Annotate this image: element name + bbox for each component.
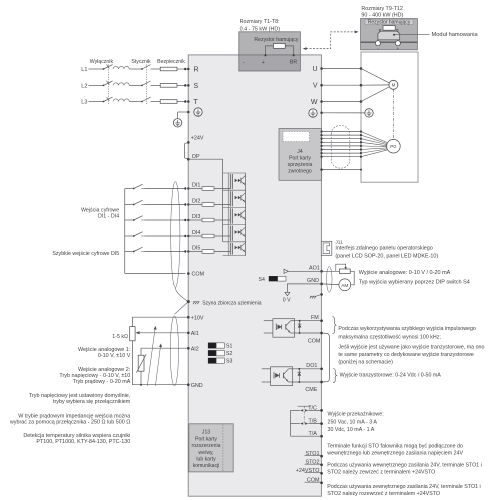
contactor contact L2 [141, 85, 143, 87]
digital input DI5 terminal [184, 250, 186, 252]
DI5 input resistor [188, 251, 202, 253]
terminal COM output [320, 332, 323, 335]
terminal STO1 [305, 455, 322, 457]
contactor contact L3 [141, 101, 143, 103]
svg-text:+: + [262, 60, 265, 66]
module base line [361, 41, 418, 43]
svg-text:1-5 kΩ: 1-5 kΩ [112, 334, 128, 340]
FM optocoupler [273, 319, 295, 338]
svg-text:PT100, PT1000, KTY-84-130, PTC: PT100, PT1000, KTY-84-130, PTC-130 [36, 439, 130, 445]
svg-text:T: T [194, 99, 199, 106]
svg-text:W: W [311, 99, 318, 106]
breaker thermal coil L3 [113, 99, 129, 102]
svg-text:wybrać za pomocą przełącznika: wybrać za pomocą przełącznika - 250 Ω lu… [9, 420, 130, 426]
svg-text:COM: COM [192, 272, 205, 278]
digital input DI1 terminal [184, 187, 186, 189]
feedback card port J4 box [279, 129, 321, 181]
wire W junction to motor [361, 87, 390, 102]
wire V to motor [320, 84, 323, 87]
wire switch to DI2 terminal [144, 204, 185, 206]
svg-text:PG: PG [390, 144, 397, 149]
terminal COM [305, 481, 322, 483]
FM output wire [295, 320, 322, 322]
PG signal wire 4 [320, 141, 322, 143]
svg-text:L3: L3 [81, 99, 87, 105]
module terminal + [397, 39, 399, 42]
svg-text:Interfejs zdalnego panelu oper: Interfejs zdalnego panelu operatorskiego [335, 245, 432, 251]
svg-text:sprzężenia: sprzężenia [288, 162, 313, 168]
terminal S dots [184, 84, 187, 87]
wire switch to DI5 terminal [144, 251, 185, 253]
braking module unit [379, 29, 381, 31]
J13 dashed divider [222, 425, 224, 472]
wire U junction to motor [361, 69, 390, 84]
svg-text:Stycznik: Stycznik [131, 59, 151, 65]
optocoupler DI1 LED arrows [235, 179, 238, 182]
optocoupler DI3 isolation bars [229, 208, 231, 223]
wire GND to AM meter [322, 283, 339, 286]
svg-text:AI2: AI2 [191, 346, 199, 352]
motor M circle [389, 80, 398, 89]
J11 remote panel connector [321, 241, 332, 255]
dashed arrow between braking boxes [306, 32, 355, 49]
svg-text:-: - [243, 60, 245, 66]
terminal AI2 [187, 347, 190, 350]
optocoupler DI5 isolation bars [229, 243, 231, 255]
external link COM to CME [322, 333, 330, 382]
DI cable shield ellipse [171, 182, 180, 288]
COM output wire [295, 332, 322, 334]
svg-text:GND: GND [191, 383, 203, 389]
motor enclosure box [361, 52, 418, 182]
terminal +24VSTO [305, 472, 322, 474]
PG signal wire 1 [320, 130, 322, 132]
terminal STO2 [305, 463, 322, 465]
svg-text:Rozmiary T9-T12: Rozmiary T9-T12 [361, 6, 403, 12]
terminal OP [187, 158, 190, 161]
DI1 external switch [125, 188, 134, 190]
GND internal wire to 0V [287, 284, 321, 292]
twisted pair arrow 1 [147, 328, 155, 386]
svg-text:rozszerzenia: rozszerzenia [192, 443, 221, 449]
CME output wire [293, 381, 322, 383]
terminal GND analog [187, 383, 190, 386]
svg-text:Podczas wykorzystywania szybki: Podczas wykorzystywania szybkiego wyjści… [338, 326, 476, 332]
svg-text:wewnętrznego lub zewnętrznego: wewnętrznego lub zewnętrznego zasilania … [327, 451, 463, 457]
fuse L2 [160, 84, 177, 88]
svg-text:AM: AM [341, 283, 348, 288]
FM COM brace [332, 317, 336, 334]
svg-text:Rezystor hamujący: Rezystor hamujący [368, 20, 411, 26]
svg-text:Port karty: Port karty [289, 155, 311, 161]
optocoupler DI4 transistor [240, 229, 242, 234]
svg-text:+24VSTO: +24VSTO [296, 468, 320, 474]
svg-text:S1: S1 [226, 344, 232, 350]
wire switch to DI3 terminal [144, 219, 185, 221]
wire contactor to fuse L2 [151, 84, 161, 86]
svg-text:DI4: DI4 [192, 230, 200, 236]
wire breaker to contactor L3 [129, 101, 142, 103]
optocoupler DI1 separator [223, 172, 246, 174]
PG shield wire [320, 168, 323, 171]
DI4 input resistor [188, 235, 202, 237]
braking resistor box T1-T8 [239, 32, 301, 71]
svg-text:COM: COM [307, 478, 320, 484]
svg-text:Szyna zbiorcza uziemienia: Szyna zbiorcza uziemienia [202, 300, 261, 306]
svg-text:+24V: +24V [191, 136, 204, 142]
terminal AI1 and wiper wire [187, 332, 190, 335]
wire breaker to contactor L1 [129, 68, 142, 70]
svg-text:Wyjście analogowe: 0-10 V / 0-: Wyjście analogowe: 0-10 V / 0-20 mA [359, 270, 451, 276]
svg-text:Wyłącznik: Wyłącznik [90, 59, 114, 65]
module terminal - [377, 39, 379, 42]
svg-text:T/C: T/C [308, 406, 317, 412]
svg-text:CME: CME [305, 387, 317, 393]
optocoupler DI1 isolation bars [229, 174, 231, 189]
wire contactor to fuse L3 [151, 101, 161, 103]
wire fuse to terminal R [177, 68, 185, 70]
terminal COM [187, 272, 190, 275]
breaker thermal coil L1 [113, 66, 129, 69]
svg-text:te same parametry co dedykowan: te same parametry co dedykowane wyjście … [338, 352, 473, 358]
svg-text:FM: FM [311, 315, 319, 321]
PG cable shield dashed capsule [331, 125, 350, 168]
svg-text:M: M [392, 83, 396, 88]
svg-text:T/B: T/B [309, 419, 318, 425]
svg-text:L2: L2 [81, 83, 87, 89]
digital input DI3 terminal [184, 219, 186, 221]
optocoupler DI3 transistor [240, 212, 242, 217]
svg-text:Jeśli wyjście jest używane jak: Jeśli wyjście jest używane jako wyjście … [338, 345, 484, 351]
wire switch to DI4 terminal [144, 235, 185, 237]
breaker contact L2 [103, 85, 105, 87]
wire L3 to breaker [89, 101, 104, 103]
J4 connector dashed white rect [283, 132, 310, 142]
wire W to motor [320, 100, 323, 103]
svg-text:0-10 V, ±10 V: 0-10 V, ±10 V [98, 353, 131, 359]
svg-text:250 Vac, 10 mA - 3 A: 250 Vac, 10 mA - 3 A [328, 419, 378, 425]
terminal T dots [184, 100, 187, 103]
PE terminal near AO with chassis symbol [320, 293, 323, 296]
DI4 external switch [125, 235, 134, 237]
svg-text:Wyjście przekaźnikowe:: Wyjście przekaźnikowe: [328, 412, 384, 418]
optocoupler DI4 LED arrows [235, 230, 238, 233]
switch common bus [124, 189, 126, 274]
terminal +10V [187, 316, 190, 319]
svg-text:DI3: DI3 [192, 214, 200, 220]
svg-text:+: + [397, 46, 400, 51]
resistor element T9-T12 [383, 26, 395, 31]
input ground electrode symbol [173, 119, 181, 127]
drive PE terminal symbol input side [194, 108, 202, 116]
DI1 input resistor [188, 188, 202, 190]
optocoupler DI3 separator [223, 206, 246, 208]
wire bus to COM [125, 273, 186, 275]
svg-text:Tryb prądowy - 0-20 mA: Tryb prądowy - 0-20 mA [73, 379, 131, 385]
svg-text:Port karty: Port karty [195, 436, 217, 442]
svg-text:Szybkie wejście cyfrowe DI5: Szybkie wejście cyfrowe DI5 [52, 251, 119, 257]
svg-text:R: R [194, 66, 199, 73]
svg-text:lub karty: lub karty [196, 457, 216, 463]
thermistor lower lead [140, 371, 142, 385]
contactor contact L1 [141, 68, 143, 70]
svg-text:0 V: 0 V [283, 297, 291, 303]
wire fuse to terminal T [177, 101, 185, 103]
terminal +24V [187, 141, 190, 144]
DIP switch S3 [208, 358, 216, 363]
optocoupler column frame [227, 173, 229, 256]
drive main enclosure box [188, 55, 321, 496]
DI3 input resistor [188, 219, 202, 221]
wire AI2 to thermistor [141, 348, 188, 355]
PG signal wire 2 [320, 134, 322, 136]
FM protection diode [299, 321, 301, 333]
DI2 input resistor [188, 204, 202, 206]
DIP switch S1 [208, 343, 216, 348]
optocoupler DI5 transistor [240, 245, 242, 250]
AO meter AM circle [350, 271, 354, 285]
digital input DI2 terminal [184, 203, 186, 205]
svg-text:Terminale funkcji STO falownik: Terminale funkcji STO falownika mogą być… [327, 443, 463, 449]
resistor lead to + terminal [266, 46, 274, 55]
svg-text:BR: BR [290, 60, 297, 66]
PG signal wire 6 [320, 148, 322, 150]
svg-text:J4: J4 [297, 149, 303, 155]
svg-text:STO2: STO2 [306, 460, 320, 466]
resistor element T1-T8 [274, 44, 286, 49]
optocoupler DI2 LED arrows [235, 196, 238, 199]
relay T/A wire [291, 435, 322, 437]
svg-text:maksymalna częstotliwość wynos: maksymalna częstotliwość wynosi 100 kHz; [338, 334, 440, 340]
svg-text:T/A: T/A [309, 431, 318, 437]
label Rezystor hamujacy T9-T12 sub-box [365, 19, 413, 24]
DO1 output wire [293, 368, 322, 370]
relay moving bar [298, 405, 311, 407]
svg-text:COM: COM [308, 339, 321, 345]
breaker mechanical link dashed [108, 65, 110, 105]
fuse L3 [160, 100, 177, 104]
grounding busbar terminal [187, 300, 190, 303]
encoder PG circle [387, 139, 401, 153]
optocoupler DI4 isolation bars [229, 226, 231, 241]
svg-text:S4: S4 [259, 277, 265, 283]
relay common rail [290, 410, 292, 436]
DO1 optocoupler [271, 367, 293, 386]
wire L1 to breaker [89, 68, 104, 70]
wire busbar to AI shield [175, 302, 189, 315]
svg-text:S3: S3 [226, 359, 232, 365]
svg-text:zwrotnego: zwrotnego [288, 168, 312, 174]
svg-text:komunikacji: komunikacji [193, 463, 220, 469]
svg-text:AI1: AI1 [191, 331, 199, 337]
svg-text:Wyjście tranzystorowe: 0-24 Vd: Wyjście tranzystorowe: 0-24 Vdc / 0-50 m… [340, 373, 442, 379]
braking resistor box T9-T12 [361, 19, 418, 50]
svg-text:DO1: DO1 [306, 363, 317, 369]
DI2 external switch [125, 204, 134, 206]
svg-text:S: S [194, 83, 199, 90]
wire U to motor [320, 67, 323, 70]
wire fuse to terminal S [177, 84, 185, 86]
FM optocoupler input stubs [264, 320, 273, 322]
terminal dots + and BR [264, 54, 266, 56]
potentiometer lower lead to GND [132, 341, 188, 385]
svg-text:Typ wyjścia wybierany poprzez: Typ wyjścia wybierany poprzez DIP switch… [359, 279, 470, 285]
jumper +24V to OP [185, 142, 189, 159]
optocoupler column bottom [223, 255, 246, 257]
DO1 CME brace [333, 369, 337, 383]
optocoupler DI1 transistor [240, 178, 242, 183]
svg-text:J13: J13 [202, 430, 210, 436]
svg-text:Rezystor hamujący: Rezystor hamujący [254, 37, 299, 43]
DI5 external switch [125, 251, 134, 253]
svg-text:DI2: DI2 [192, 199, 200, 205]
breaker thermal coil L2 [113, 83, 129, 86]
svg-text:Podczas używania zewnętrznego: Podczas używania zewnętrznego zasilania … [327, 484, 480, 490]
svg-text:STO2 należy zewrzeć z terminal: STO2 należy zewrzeć z terminalem +24VSTO [327, 470, 435, 476]
PG signal wire 8 [320, 156, 322, 158]
svg-text:Moduł hamowania: Moduł hamowania [432, 32, 479, 38]
svg-text:+10V: +10V [191, 315, 204, 321]
label Modul hamowania with leader [395, 34, 430, 36]
svg-text:(poniżej na schemacie): (poniżej na schemacie) [338, 359, 393, 365]
optocoupler DI2 isolation bars [229, 191, 231, 206]
breaker contact L1 [103, 68, 105, 70]
DO1 protection diode [298, 369, 300, 382]
contactor mechanical link dashed [145, 65, 147, 105]
svg-text:tryby wybiera się przełączniki: tryby wybiera się przełącznikiem [53, 399, 131, 405]
motor shaft dash-dot link [392, 90, 394, 140]
optocoupler DI3 LED arrows [235, 213, 238, 216]
svg-text:DI5: DI5 [192, 246, 200, 252]
twisted pair arrow 2 [155, 345, 160, 386]
AO cable shield ellipse [327, 267, 332, 293]
optocoupler DI5 separator [223, 241, 246, 243]
PG signal wire 5 [320, 145, 322, 147]
DI3 external switch [125, 219, 134, 221]
optocoupler DI2 transistor [240, 195, 242, 200]
svg-text:we/wy,: we/wy, [198, 450, 213, 456]
svg-text:(panel LCD SOP-20, panel LED M: (panel LCD SOP-20, panel LED MDKE-10) [335, 254, 438, 260]
breaker contact L3 [103, 101, 105, 103]
PG signal wire 3 [320, 138, 322, 140]
output PE wire [320, 112, 323, 115]
wire switch to DI1 terminal [144, 188, 185, 190]
svg-text:L1: L1 [81, 67, 87, 73]
svg-text:90 - 400 kW (HD): 90 - 400 kW (HD) [361, 12, 403, 18]
terminal CME [320, 381, 323, 384]
svg-text:AO1: AO1 [309, 265, 320, 271]
svg-text:30 Vdc, 10 mA - 1 A: 30 Vdc, 10 mA - 1 A [328, 427, 375, 433]
optocoupler rail vertical [222, 173, 224, 242]
optocoupler DI5 LED arrows [235, 246, 238, 249]
digital input DI4 terminal [184, 235, 186, 237]
grounding busbar chassis symbol [193, 301, 200, 303]
svg-text:DI1 - DI4: DI1 - DI4 [98, 214, 119, 220]
svg-text:Rozmiary T1-T8:: Rozmiary T1-T8: [240, 19, 280, 25]
svg-text:GND: GND [307, 278, 319, 284]
motor ground symbol [365, 109, 373, 117]
potentiometer 1-5k body [130, 327, 135, 341]
wire OP to optocoupler rail [188, 159, 222, 173]
resistor lead to BR terminal [285, 46, 294, 55]
AO external calibration potentiometer [322, 270, 340, 272]
PG signal wire 7 [320, 152, 322, 154]
svg-text:V: V [313, 83, 318, 90]
AI cable shield ellipse [170, 316, 178, 386]
svg-text:STO2 należy rozewrzeć z termin: STO2 należy rozewrzeć z terminalem +24VS… [327, 491, 440, 497]
optocoupler DI2 separator [223, 189, 246, 191]
svg-text:U: U [312, 66, 317, 73]
svg-text:Podczas używania wewnętrznego: Podczas używania wewnętrznego zasilania … [327, 462, 482, 468]
thermistor body [138, 355, 144, 371]
svg-text:S2: S2 [226, 351, 232, 357]
terminal R dots [184, 68, 187, 71]
DO1 optocoupler input stubs [262, 368, 271, 370]
svg-text:DI1: DI1 [192, 183, 200, 189]
DIP switch S2 [208, 350, 216, 355]
wire breaker to contactor L2 [129, 84, 142, 86]
J13 expansion port box [189, 424, 233, 472]
input PE wire [187, 111, 190, 114]
relay T/B contact [291, 423, 300, 425]
wire contactor to fuse L1 [151, 68, 161, 70]
svg-text:STO1: STO1 [306, 451, 320, 457]
wire V junction to motor [361, 84, 389, 86]
AO1 internal wire with buffer triangle [288, 270, 321, 272]
relay T/C contact [291, 409, 300, 411]
wire L2 to breaker [89, 84, 104, 86]
fuse L1 [160, 67, 177, 71]
DI shield drain wire [175, 288, 188, 302]
optocoupler DI4 separator [223, 224, 246, 226]
svg-text:Bezpiecznik: Bezpiecznik [157, 59, 185, 65]
relay link dash-dot [303, 406, 305, 424]
wire +10V to potentiometer [132, 317, 188, 326]
drive PE terminal symbol output side [309, 109, 317, 117]
